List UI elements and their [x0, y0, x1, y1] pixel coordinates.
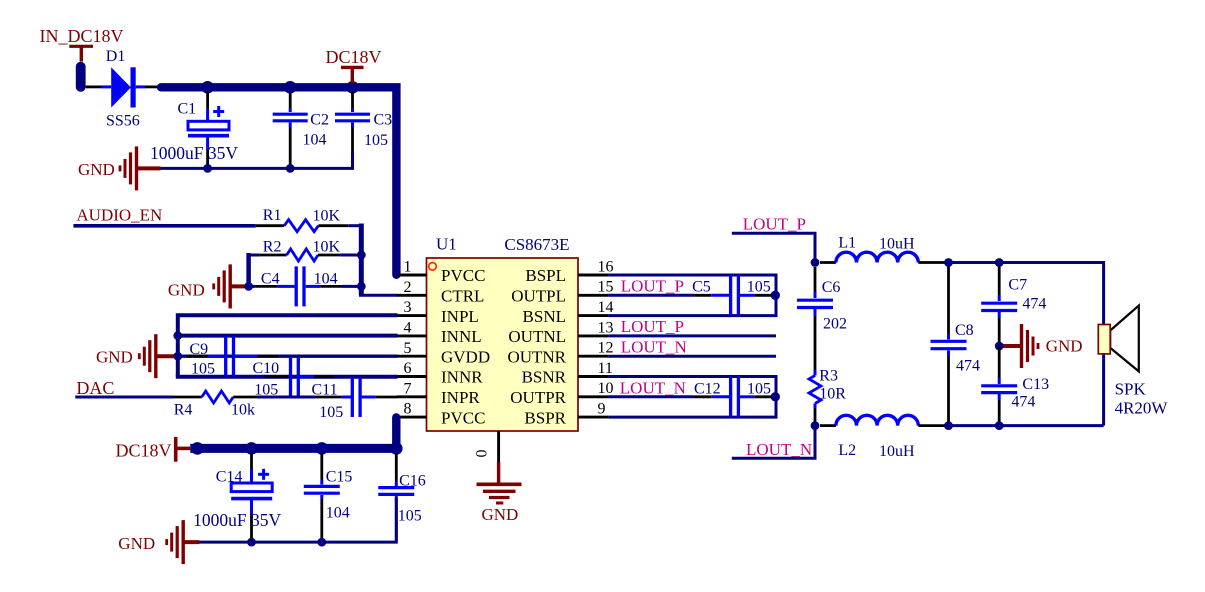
- junction: [944, 421, 953, 430]
- svg-text:CS8673E: CS8673E: [504, 235, 569, 254]
- svg-text:8: 8: [404, 401, 412, 418]
- resistor R3: [809, 368, 846, 426]
- capacitor C12: [608, 376, 774, 417]
- port PVCC pin 1: [441, 266, 485, 285]
- pin 13: [578, 319, 614, 336]
- svg-text:10uH: 10uH: [879, 443, 915, 460]
- port OUTNL pin 13: [508, 327, 566, 346]
- svg-text:474: 474: [1022, 296, 1046, 313]
- svg-text:C13: C13: [1022, 376, 1049, 393]
- power port IN_DC18V: [40, 26, 124, 61]
- junction: [247, 538, 256, 547]
- pin 1: [397, 259, 427, 276]
- junction: [771, 291, 780, 300]
- pin 4: [397, 320, 427, 337]
- svg-text:PVCC: PVCC: [441, 408, 485, 427]
- ground GND: [999, 324, 1082, 368]
- wire gnd rail bottom: [199, 498, 397, 542]
- port PVCC pin 8: [441, 408, 485, 427]
- capacitor C14: [193, 453, 281, 541]
- svg-text:104: 104: [303, 132, 327, 149]
- svg-text:C10: C10: [253, 360, 280, 377]
- net LOUT_N: [732, 426, 815, 460]
- net label LOUT_N pin10: [620, 378, 686, 397]
- pin 3: [397, 299, 427, 316]
- svg-text:15: 15: [598, 279, 614, 296]
- wire BSNR net: [608, 377, 776, 397]
- svg-text:LOUT_N: LOUT_N: [620, 378, 686, 397]
- svg-text:7: 7: [404, 380, 412, 397]
- svg-text:OUTPR: OUTPR: [510, 388, 566, 407]
- svg-text:1000uF 35V: 1000uF 35V: [193, 510, 281, 530]
- svg-text:1000uF 35V: 1000uF 35V: [150, 143, 238, 163]
- svg-text:R4: R4: [174, 402, 193, 419]
- pin 5: [397, 340, 427, 357]
- junction: [995, 258, 1004, 267]
- svg-text:GVDD: GVDD: [441, 347, 490, 366]
- svg-text:BSNL: BSNL: [523, 307, 566, 326]
- junction: [173, 352, 182, 361]
- port BSNR pin 11: [522, 368, 567, 387]
- svg-text:LOUT_N: LOUT_N: [746, 440, 812, 459]
- svg-text:105: 105: [191, 360, 215, 377]
- pin 10: [578, 380, 614, 397]
- junction: [191, 442, 204, 455]
- capacitor C5: [608, 275, 774, 316]
- wire gnd rail: [160, 152, 353, 168]
- capacitor C4: [249, 266, 362, 306]
- pin 15: [578, 279, 614, 296]
- svg-text:11: 11: [598, 360, 613, 377]
- svg-text:C1: C1: [178, 101, 197, 118]
- svg-text:R1: R1: [263, 207, 282, 224]
- svg-text:C16: C16: [399, 472, 426, 489]
- svg-text:C3: C3: [374, 111, 393, 128]
- svg-text:GND: GND: [168, 280, 205, 299]
- wire BSPR net: [608, 397, 776, 417]
- svg-text:2: 2: [404, 279, 412, 296]
- port CTRL pin 2: [441, 287, 484, 306]
- svg-text:CTRL: CTRL: [441, 287, 484, 306]
- svg-text:SS56: SS56: [106, 113, 140, 130]
- svg-text:474: 474: [1011, 394, 1035, 411]
- junction: [771, 392, 780, 401]
- wire OUTNL LOUT_P: [608, 317, 776, 336]
- pin 7: [397, 380, 427, 397]
- svg-text:10: 10: [598, 380, 614, 397]
- svg-text:AUDIO_EN: AUDIO_EN: [76, 206, 162, 225]
- svg-text:105: 105: [398, 507, 422, 524]
- svg-text:104: 104: [326, 504, 350, 521]
- svg-text:GND: GND: [1046, 337, 1083, 356]
- resistor R4: [173, 391, 315, 419]
- svg-text:10K: 10K: [313, 208, 341, 225]
- junction: [390, 442, 403, 455]
- svg-text:DAC: DAC: [76, 378, 114, 398]
- net AUDIO_EN: [73, 206, 255, 226]
- connector P1 pin: [76, 62, 86, 92]
- capacitor C9: [186, 336, 278, 377]
- svg-text:GND: GND: [78, 160, 115, 179]
- inductor L2: [820, 415, 944, 460]
- port GVDD pin 5: [441, 347, 490, 366]
- svg-text:10uH: 10uH: [879, 235, 915, 252]
- svg-text:LOUT_P: LOUT_P: [621, 317, 684, 336]
- junction: [357, 282, 366, 291]
- port BSPL pin 16: [525, 266, 566, 285]
- svg-text:C12: C12: [694, 380, 721, 397]
- ground GND under chip: [477, 462, 522, 524]
- svg-text:C7: C7: [1008, 276, 1027, 293]
- svg-text:D1: D1: [106, 48, 126, 65]
- wire node CTRL: [359, 224, 398, 296]
- wire DC18V bottom rail: [190, 444, 396, 453]
- net LOUT_P: [732, 214, 815, 262]
- wire +18V thick rail: [161, 87, 396, 274]
- power port DC18V: [326, 47, 382, 83]
- port INNR pin 6: [441, 368, 483, 387]
- svg-text:BSPL: BSPL: [525, 266, 566, 285]
- port INNL pin 4: [441, 327, 482, 346]
- svg-text:10K: 10K: [313, 238, 341, 255]
- svg-text:IN_DC18V: IN_DC18V: [40, 26, 124, 46]
- capacitor C3: [335, 92, 392, 155]
- pin 16: [578, 258, 614, 275]
- svg-text:DC18V: DC18V: [116, 440, 172, 460]
- svg-text:202: 202: [823, 316, 847, 333]
- svg-text:R3: R3: [819, 368, 838, 385]
- svg-text:C11: C11: [312, 381, 338, 398]
- wire INNL net: [178, 334, 398, 338]
- svg-text:105: 105: [747, 279, 771, 296]
- svg-text:INPL: INPL: [441, 307, 479, 326]
- svg-text:R2: R2: [263, 238, 282, 255]
- junction: [811, 258, 820, 267]
- svg-text:LOUT_P: LOUT_P: [743, 214, 806, 233]
- svg-text:BSNR: BSNR: [522, 368, 567, 387]
- svg-text:C4: C4: [261, 270, 280, 287]
- svg-text:OUTNL: OUTNL: [508, 327, 566, 346]
- svg-text:3: 3: [404, 299, 412, 316]
- pin 0: [474, 431, 499, 462]
- capacitor C13: [981, 346, 1049, 426]
- svg-text:INNR: INNR: [441, 368, 483, 387]
- svg-text:14: 14: [598, 299, 614, 316]
- svg-text:105: 105: [364, 132, 388, 149]
- capacitor C8: [931, 263, 981, 426]
- wire INNR net: [176, 375, 398, 379]
- pin 14: [578, 299, 614, 316]
- op-amp U1 CS8673E body: [427, 235, 579, 431]
- svg-text:L2: L2: [838, 442, 856, 459]
- svg-text:C15: C15: [326, 469, 353, 486]
- port BSNL pin 14: [523, 307, 566, 326]
- capacitor C11: [312, 377, 398, 421]
- svg-text:BSPR: BSPR: [524, 408, 566, 427]
- svg-text:C5: C5: [692, 279, 711, 296]
- wire BSNL net: [608, 295, 776, 315]
- svg-text:U1: U1: [436, 235, 457, 254]
- junction: [173, 331, 182, 340]
- wire BSPL net: [608, 275, 776, 295]
- capacitor C15: [304, 453, 353, 541]
- speaker SPK: [1098, 306, 1168, 418]
- svg-text:4R20W: 4R20W: [1115, 398, 1169, 417]
- svg-text:LOUT_N: LOUT_N: [621, 337, 687, 356]
- svg-text:105: 105: [747, 380, 771, 397]
- pin 6: [397, 360, 427, 377]
- svg-text:OUTPL: OUTPL: [511, 287, 566, 306]
- wire OUTNR LOUT_N: [608, 337, 776, 356]
- power port DC18V bottom: [116, 437, 191, 462]
- capacitor C2: [273, 92, 329, 167]
- junction: [995, 342, 1004, 351]
- junction: [346, 81, 359, 94]
- wire filter top: [944, 263, 1104, 426]
- svg-text:C14: C14: [216, 468, 243, 485]
- junction: [244, 282, 253, 291]
- junction: [317, 538, 326, 547]
- svg-text:GND: GND: [118, 534, 155, 553]
- resistor R2: [249, 238, 362, 261]
- resistor R1: [256, 207, 362, 232]
- ground GND: [118, 520, 199, 564]
- svg-text:6: 6: [404, 360, 412, 377]
- svg-text:C8: C8: [955, 322, 974, 339]
- capacitor C16: [378, 453, 425, 541]
- pin 9: [578, 401, 608, 418]
- port BSPR pin 9: [524, 408, 566, 427]
- wire filter bottom: [944, 424, 1104, 427]
- svg-text:L1: L1: [838, 235, 856, 252]
- svg-text:5: 5: [404, 340, 412, 357]
- svg-text:13: 13: [598, 319, 614, 336]
- port INPL pin 3: [441, 307, 479, 326]
- ground GND: [78, 146, 161, 190]
- junction: [316, 442, 329, 455]
- svg-text:10R: 10R: [819, 386, 846, 403]
- junction: [286, 164, 295, 173]
- svg-text:1: 1: [404, 259, 412, 276]
- capacitor C7: [981, 263, 1046, 347]
- wire: [246, 253, 251, 286]
- capacitor C1: [150, 92, 238, 167]
- ground GND: [96, 334, 179, 378]
- svg-text:0: 0: [474, 450, 491, 458]
- junction: [245, 442, 258, 455]
- svg-text:GND: GND: [96, 348, 133, 367]
- junction: [203, 164, 212, 173]
- svg-text:DC18V: DC18V: [326, 47, 382, 67]
- capacitor C10: [253, 357, 335, 399]
- svg-text:INNL: INNL: [441, 327, 482, 346]
- svg-text:9: 9: [598, 401, 606, 418]
- wire INPL net: [178, 315, 398, 377]
- port OUTPR pin 10: [510, 388, 566, 407]
- svg-text:104: 104: [314, 271, 338, 288]
- svg-text:12: 12: [598, 340, 614, 357]
- capacitor C6: [797, 267, 847, 370]
- svg-text:4: 4: [404, 320, 412, 337]
- svg-text:10k: 10k: [231, 401, 255, 418]
- svg-text:C6: C6: [822, 279, 841, 296]
- wire PVCC thick stub: [392, 417, 400, 448]
- svg-text:SPK: SPK: [1115, 380, 1147, 399]
- port OUTNR pin 12: [507, 347, 566, 366]
- svg-text:OUTNR: OUTNR: [507, 347, 566, 366]
- svg-text:C2: C2: [310, 111, 329, 128]
- port INPR pin 7: [441, 388, 480, 407]
- svg-text:GND: GND: [482, 505, 519, 524]
- svg-text:LOUT_P: LOUT_P: [621, 277, 684, 296]
- wire: [86, 86, 102, 89]
- net DAC: [75, 378, 173, 398]
- junction: [201, 81, 214, 94]
- svg-text:16: 16: [598, 258, 614, 275]
- junction: [357, 251, 366, 260]
- wire GVDD net: [178, 355, 398, 358]
- svg-text:105: 105: [319, 404, 343, 421]
- net label LOUT_P pin15: [621, 277, 684, 296]
- junction: [811, 421, 820, 430]
- port OUTPL pin 15: [511, 287, 566, 306]
- ground GND: [168, 264, 249, 308]
- svg-text:INPR: INPR: [441, 388, 480, 407]
- inductor L1: [820, 235, 944, 263]
- svg-text:PVCC: PVCC: [441, 266, 485, 285]
- pin 2: [397, 279, 427, 296]
- junction: [995, 421, 1004, 430]
- junction: [944, 258, 953, 267]
- svg-text:474: 474: [956, 357, 980, 374]
- svg-text:C9: C9: [190, 341, 209, 358]
- diode D1: [102, 48, 161, 130]
- pin 12: [578, 340, 614, 357]
- junction: [284, 81, 297, 94]
- pin 8: [397, 401, 427, 418]
- pin 11: [578, 360, 613, 377]
